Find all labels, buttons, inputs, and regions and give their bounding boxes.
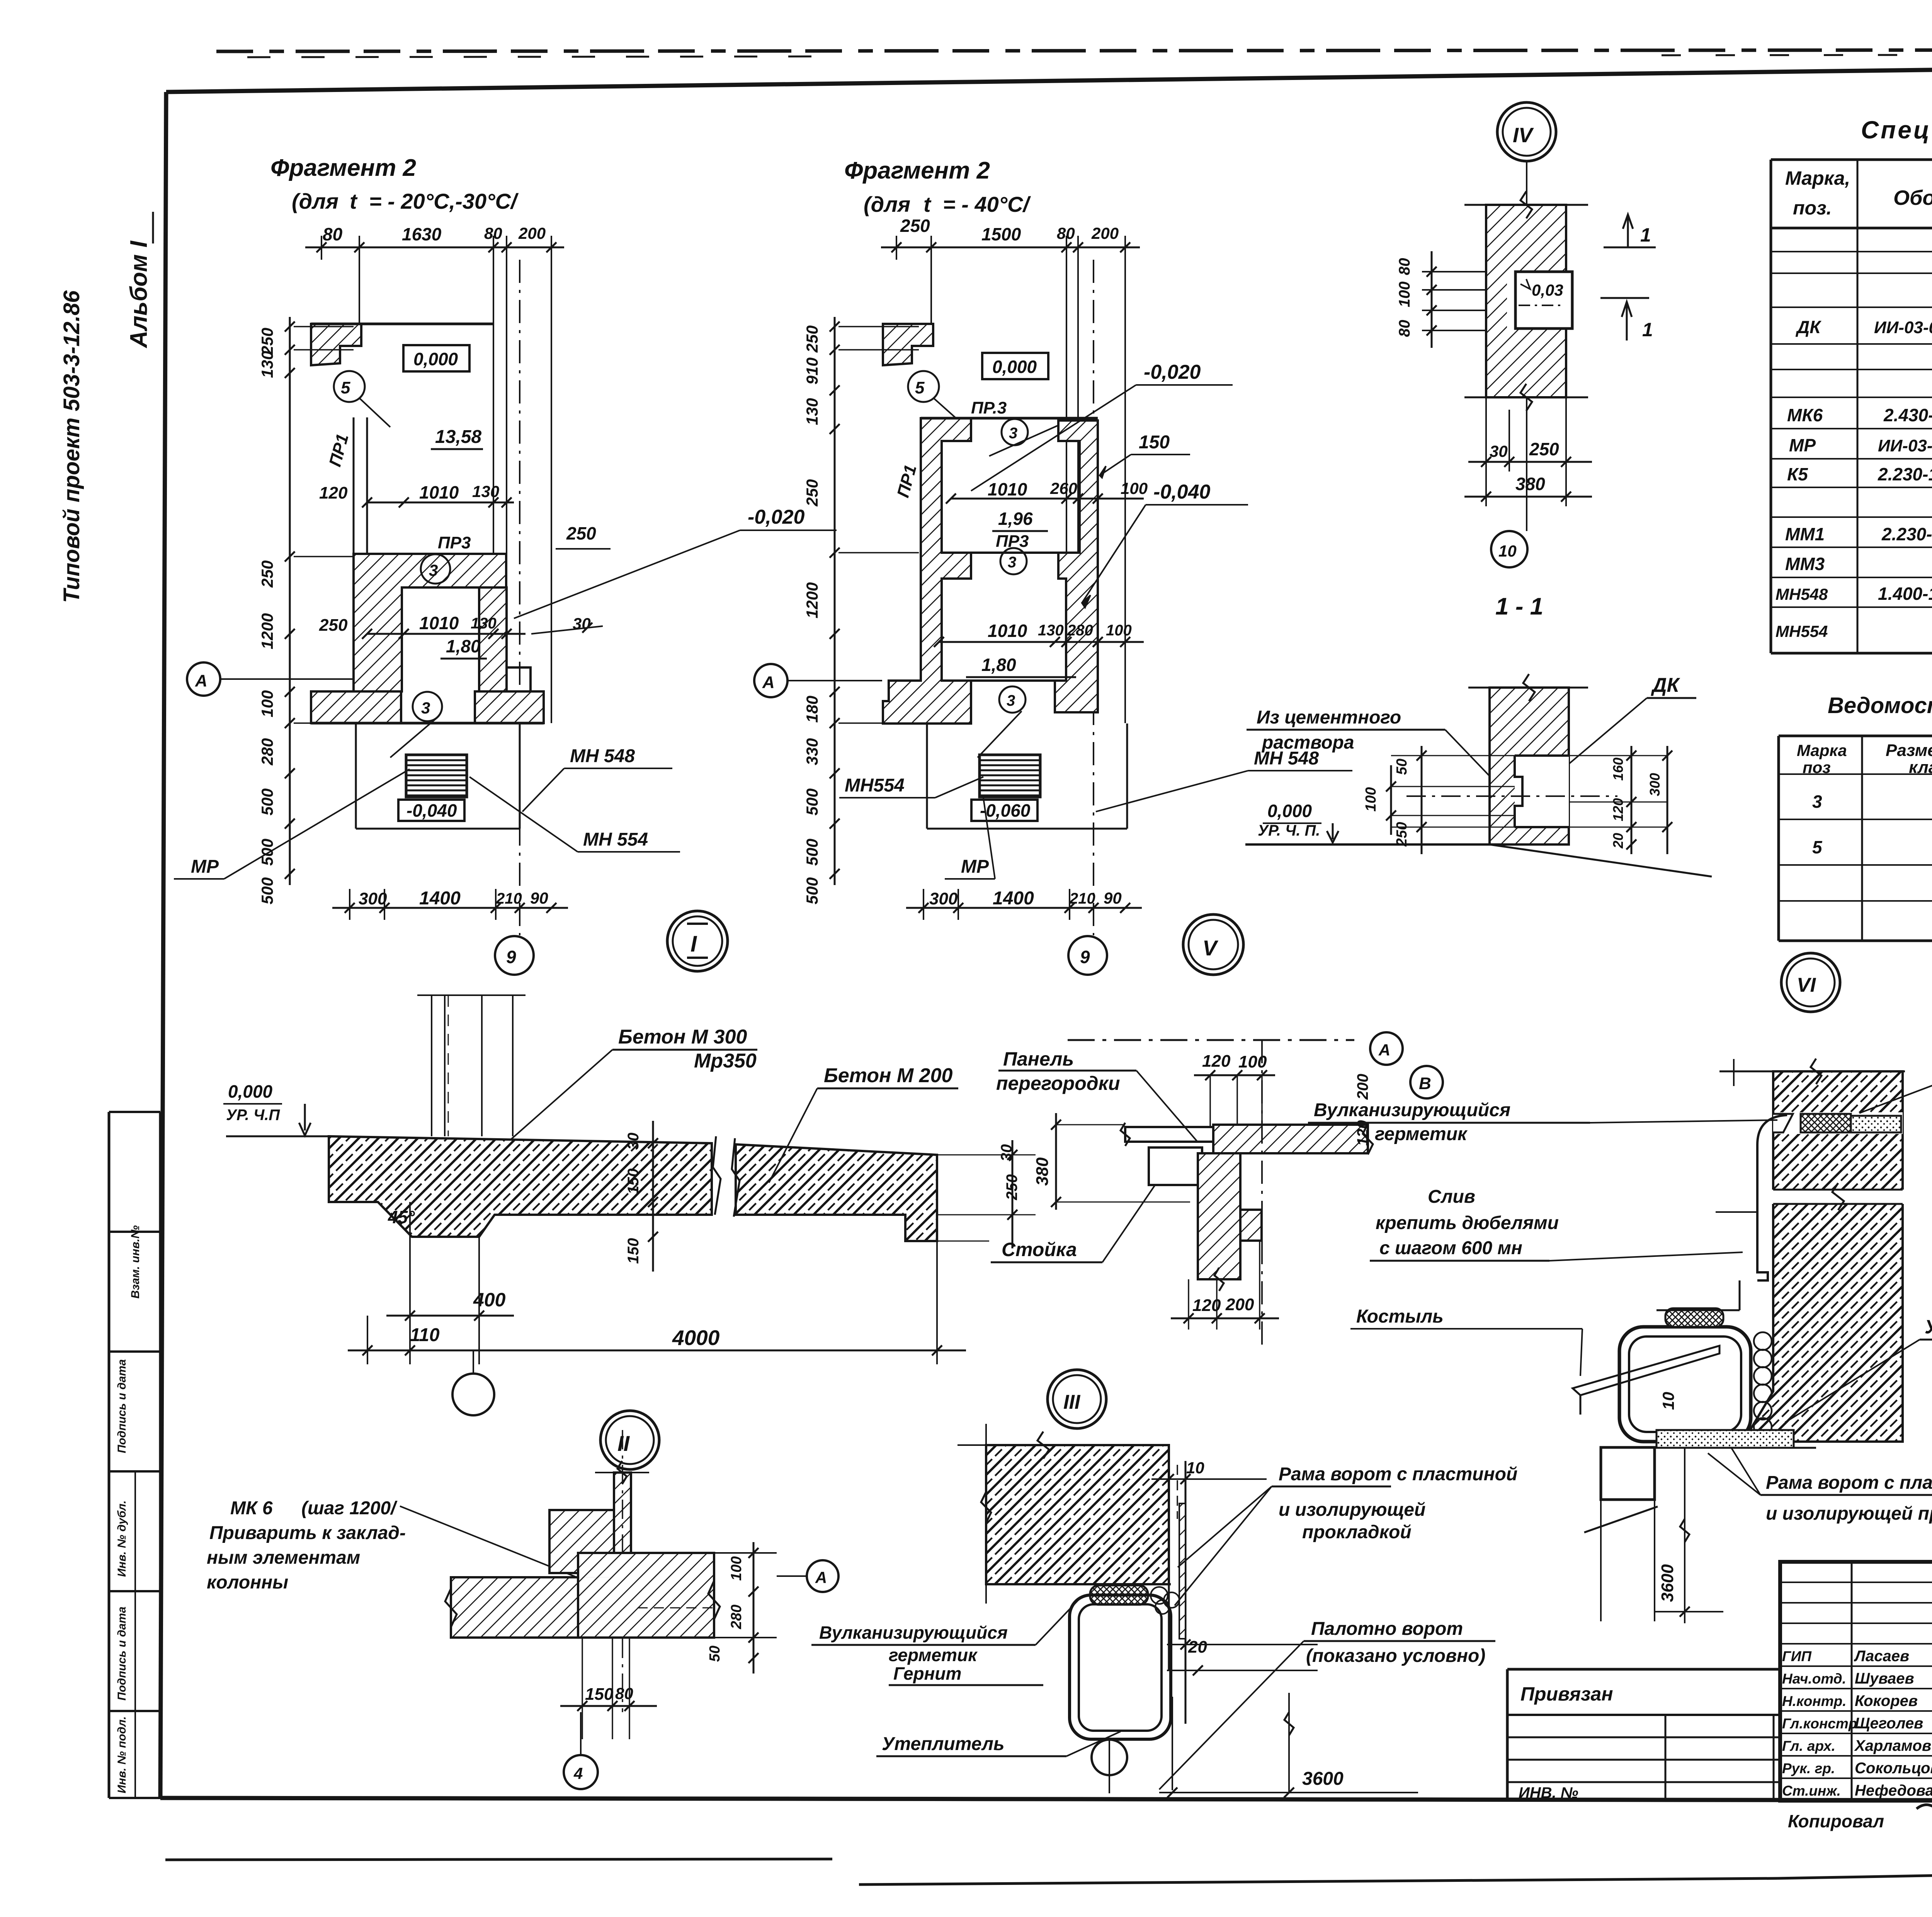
svg-text:10: 10 xyxy=(1498,542,1517,560)
svg-text:Костыль: Костыль xyxy=(1356,1306,1444,1327)
svg-text:t: t xyxy=(350,189,358,213)
svg-text:500: 500 xyxy=(803,877,821,904)
svg-text:Щеголев: Щеголев xyxy=(1855,1715,1923,1732)
svg-text:и изолирующей: и изолирующей xyxy=(1279,1500,1425,1520)
svg-text:Ведомость проемов дверей: Ведомость проемов дверей xyxy=(1828,693,1932,718)
svg-text:330: 330 xyxy=(803,738,821,765)
svg-text:200: 200 xyxy=(518,224,546,242)
svg-text:ДК: ДК xyxy=(1651,674,1680,696)
svg-text:250: 250 xyxy=(1003,1174,1020,1200)
svg-text:2.230-1 вып. 5: 2.230-1 вып. 5 xyxy=(1881,524,1932,544)
svg-text:Инв. № дубл.: Инв. № дубл. xyxy=(116,1500,128,1577)
svg-text:Сокольцов: Сокольцов xyxy=(1855,1760,1932,1777)
svg-text:-0,060: -0,060 xyxy=(980,800,1031,821)
svg-text:150: 150 xyxy=(625,1238,642,1264)
svg-text:А: А xyxy=(815,1568,827,1587)
svg-text:= - 20°С,-30°С/: = - 20°С,-30°С/ xyxy=(369,189,519,213)
svg-text:150: 150 xyxy=(1139,432,1170,453)
svg-text:I: I xyxy=(690,931,697,957)
svg-text:1500: 1500 xyxy=(981,224,1021,244)
svg-text:260: 260 xyxy=(1050,479,1077,497)
svg-text:ПР3: ПР3 xyxy=(438,533,471,552)
svg-text:5: 5 xyxy=(915,378,925,397)
svg-text:Кокорев: Кокорев xyxy=(1855,1692,1918,1709)
svg-text:250: 250 xyxy=(319,616,348,635)
svg-text:МР: МР xyxy=(961,856,989,877)
svg-text:МР: МР xyxy=(1789,435,1816,455)
svg-text:30: 30 xyxy=(573,615,591,633)
svg-text:Подпись и дата: Подпись и дата xyxy=(116,1607,128,1701)
svg-text:10: 10 xyxy=(1659,1392,1677,1410)
svg-text:250: 250 xyxy=(1394,822,1410,847)
svg-text:1010: 1010 xyxy=(988,621,1027,641)
svg-text:0,000: 0,000 xyxy=(1267,801,1312,821)
svg-text:130: 130 xyxy=(258,351,276,378)
svg-text:50: 50 xyxy=(1394,759,1410,775)
svg-text:1400: 1400 xyxy=(993,888,1034,909)
svg-text:ПР1: ПР1 xyxy=(893,463,920,499)
svg-text:100: 100 xyxy=(728,1556,745,1581)
svg-text:13,58: 13,58 xyxy=(435,427,481,447)
svg-text:120: 120 xyxy=(1354,1120,1371,1146)
svg-text:Ст.инж.: Ст.инж. xyxy=(1782,1783,1841,1799)
svg-text:500: 500 xyxy=(258,839,276,866)
svg-text:В: В xyxy=(1419,1074,1431,1093)
svg-text:100: 100 xyxy=(1121,479,1148,497)
svg-text:МР: МР xyxy=(191,856,219,877)
svg-text:3: 3 xyxy=(1008,554,1016,571)
svg-text:А: А xyxy=(195,671,207,690)
svg-text:поз.: поз. xyxy=(1793,197,1832,219)
svg-text:МК 6: МК 6 xyxy=(230,1498,273,1519)
svg-text:МН548: МН548 xyxy=(1776,585,1828,603)
svg-text:МН554: МН554 xyxy=(845,775,905,796)
svg-text:100: 100 xyxy=(258,690,276,717)
svg-text:ММ1: ММ1 xyxy=(1785,524,1825,544)
svg-text:200: 200 xyxy=(1354,1074,1371,1100)
svg-text:Харламов: Харламов xyxy=(1854,1737,1931,1754)
svg-text:-0,040: -0,040 xyxy=(1153,481,1211,503)
svg-text:500: 500 xyxy=(258,877,276,904)
svg-text:ГИП: ГИП xyxy=(1782,1648,1812,1664)
svg-text:1200: 1200 xyxy=(803,582,821,618)
svg-text:1: 1 xyxy=(1640,224,1651,246)
svg-text:130: 130 xyxy=(472,482,499,501)
svg-text:поз: поз xyxy=(1803,758,1831,776)
svg-text:90: 90 xyxy=(530,889,548,907)
svg-text:Обозначение: Обозначение xyxy=(1893,186,1932,209)
svg-text:прокладкой: прокладкой xyxy=(1302,1522,1412,1542)
svg-text:Фрагмент 2: Фрагмент 2 xyxy=(844,157,990,184)
svg-text:3: 3 xyxy=(421,699,430,717)
svg-text:ИИ-03-03 альбом 71-64: ИИ-03-03 альбом 71-64 xyxy=(1874,318,1932,337)
svg-text:Приварить к заклад-: Приварить к заклад- xyxy=(209,1523,406,1543)
svg-text:V: V xyxy=(1202,936,1219,960)
svg-text:3: 3 xyxy=(1007,692,1015,709)
svg-text:80: 80 xyxy=(1057,224,1075,242)
svg-text:1010: 1010 xyxy=(988,479,1027,499)
svg-text:Размер проема в: Размер проема в xyxy=(1886,741,1932,760)
svg-text:Гл. арх.: Гл. арх. xyxy=(1782,1738,1835,1754)
svg-text:250: 250 xyxy=(258,560,276,588)
svg-text:4: 4 xyxy=(573,1764,583,1783)
svg-text:= - 40°С/: = - 40°С/ xyxy=(943,192,1031,216)
svg-text:Слив: Слив xyxy=(1428,1187,1475,1207)
svg-text:II: II xyxy=(617,1431,630,1456)
svg-text:Рук. гр.: Рук. гр. xyxy=(1782,1760,1835,1776)
svg-text:180: 180 xyxy=(803,696,821,723)
svg-text:1630: 1630 xyxy=(402,224,442,244)
svg-text:500: 500 xyxy=(258,788,276,815)
svg-text:0,000: 0,000 xyxy=(413,349,458,369)
svg-text:250: 250 xyxy=(1529,439,1559,459)
svg-text:К5: К5 xyxy=(1787,464,1808,484)
svg-text:кладке, ММ: кладке, ММ xyxy=(1909,758,1932,777)
svg-text:1,80: 1,80 xyxy=(446,636,481,656)
svg-text:(шаг 1200/: (шаг 1200/ xyxy=(301,1498,398,1519)
svg-text:Подпись и дата: Подпись и дата xyxy=(116,1359,128,1453)
svg-text:80: 80 xyxy=(1396,320,1413,337)
svg-text:250: 250 xyxy=(900,216,930,236)
svg-text:1400: 1400 xyxy=(419,888,461,909)
svg-text:(для: (для xyxy=(864,192,910,216)
svg-text:Спецификация элементов к: Спецификация элементов к узлам I-V xyxy=(1861,116,1932,144)
svg-text:Стойка: Стойка xyxy=(1002,1239,1077,1260)
svg-text:ПР.3: ПР.3 xyxy=(971,398,1007,417)
svg-text:Гл.констр.: Гл.констр. xyxy=(1782,1716,1861,1731)
svg-text:10: 10 xyxy=(1186,1459,1204,1477)
svg-text:280: 280 xyxy=(258,738,276,766)
svg-text:250: 250 xyxy=(803,479,821,507)
svg-text:IV: IV xyxy=(1513,124,1534,147)
svg-text:МН 554: МН 554 xyxy=(583,829,648,850)
svg-text:Привязан: Привязан xyxy=(1520,1683,1613,1705)
svg-text:1: 1 xyxy=(1642,319,1653,340)
svg-text:Типовой проект 503-3-12.86: Типовой проект 503-3-12.86 xyxy=(59,290,84,603)
svg-text:2.430-3 вып.3: 2.430-3 вып.3 xyxy=(1883,405,1932,425)
svg-text:45°: 45° xyxy=(388,1207,415,1227)
svg-text:0,03: 0,03 xyxy=(1532,281,1563,299)
svg-text:80: 80 xyxy=(1396,258,1413,276)
svg-text:ММ3: ММ3 xyxy=(1785,554,1825,574)
svg-text:МК6: МК6 xyxy=(1787,405,1823,425)
svg-text:Мр350: Мр350 xyxy=(694,1050,757,1072)
svg-text:крепить дюбелями: крепить дюбелями xyxy=(1376,1213,1559,1233)
svg-text:200: 200 xyxy=(1225,1295,1254,1314)
svg-text:А: А xyxy=(1378,1041,1390,1059)
svg-text:ДК: ДК xyxy=(1795,317,1821,337)
svg-text:III: III xyxy=(1063,1391,1081,1413)
svg-text:500: 500 xyxy=(803,788,821,815)
svg-text:А: А xyxy=(762,673,775,692)
svg-text:100: 100 xyxy=(1396,281,1413,307)
svg-text:Нач.отд.: Нач.отд. xyxy=(1782,1671,1846,1687)
svg-text:ным элементам: ным элементам xyxy=(207,1548,360,1568)
svg-text:Фрагмент 2: Фрагмент 2 xyxy=(270,155,416,181)
svg-text:герметик: герметик xyxy=(1375,1124,1468,1144)
svg-text:400: 400 xyxy=(473,1289,506,1311)
svg-text:-0,020: -0,020 xyxy=(748,506,805,528)
svg-text:перегородки: перегородки xyxy=(996,1073,1120,1094)
svg-text:200: 200 xyxy=(1091,224,1119,242)
svg-text:2.230-1 вып. 5: 2.230-1 вып. 5 xyxy=(1878,464,1932,484)
svg-text:160: 160 xyxy=(1610,758,1626,781)
svg-text:Ласаев: Ласаев xyxy=(1854,1648,1909,1665)
svg-text:280: 280 xyxy=(728,1605,745,1629)
svg-text:Копировал: Копировал xyxy=(1788,1811,1884,1831)
svg-text:3: 3 xyxy=(1009,425,1017,442)
svg-text:Палотно ворот: Палотно ворот xyxy=(1311,1619,1463,1639)
svg-text:Из цементного: Из цементного xyxy=(1257,707,1401,728)
svg-text:380: 380 xyxy=(1033,1157,1052,1186)
svg-text:300: 300 xyxy=(1647,773,1663,796)
svg-text:130: 130 xyxy=(471,615,497,632)
svg-text:30: 30 xyxy=(998,1144,1015,1162)
svg-text:9: 9 xyxy=(506,947,516,967)
svg-text:120: 120 xyxy=(319,484,348,502)
svg-text:и изолирующей прокладкой: и изолирующей прокладкой xyxy=(1766,1503,1932,1524)
svg-text:1.400-15 вып.1: 1.400-15 вып.1 xyxy=(1878,584,1932,604)
svg-text:УР. Ч.П: УР. Ч.П xyxy=(226,1107,280,1124)
svg-text:130: 130 xyxy=(1038,622,1064,639)
svg-text:5: 5 xyxy=(341,378,350,397)
svg-text:4000: 4000 xyxy=(672,1326,720,1350)
svg-text:-0,040: -0,040 xyxy=(406,800,457,821)
svg-text:9: 9 xyxy=(1080,947,1090,967)
svg-text:1 - 1: 1 - 1 xyxy=(1495,593,1543,620)
svg-text:110: 110 xyxy=(410,1325,440,1345)
svg-text:3600: 3600 xyxy=(1302,1769,1344,1789)
svg-text:250: 250 xyxy=(803,325,821,353)
svg-text:МН554: МН554 xyxy=(1776,622,1828,640)
svg-text:t: t xyxy=(923,192,932,216)
svg-text:30: 30 xyxy=(1490,442,1508,460)
svg-text:3: 3 xyxy=(1812,792,1822,812)
svg-text:МН 548: МН 548 xyxy=(570,746,635,766)
svg-text:Панель: Панель xyxy=(1003,1048,1074,1070)
svg-text:Альбом I: Альбом I xyxy=(126,240,152,349)
svg-text:Вулканизирующийся: Вулканизирующийся xyxy=(1314,1100,1510,1120)
svg-text:90: 90 xyxy=(1104,889,1122,907)
svg-text:500: 500 xyxy=(803,839,821,866)
svg-text:Гернит: Гернит xyxy=(893,1663,961,1684)
svg-text:УР. Ч. П.: УР. Ч. П. xyxy=(1258,822,1320,839)
svg-text:80: 80 xyxy=(484,224,502,242)
svg-text:150: 150 xyxy=(585,1685,614,1704)
svg-text:1010: 1010 xyxy=(419,613,459,633)
svg-text:Шуваев: Шуваев xyxy=(1855,1670,1914,1687)
svg-text:300: 300 xyxy=(929,889,958,908)
svg-text:(показано условно): (показано условно) xyxy=(1306,1646,1485,1666)
svg-text:130: 130 xyxy=(803,398,821,425)
svg-text:30: 30 xyxy=(625,1133,642,1150)
svg-text:Н.контр.: Н.контр. xyxy=(1782,1693,1846,1709)
svg-text:5: 5 xyxy=(1812,837,1823,857)
svg-text:ИНВ. №: ИНВ. № xyxy=(1519,1784,1578,1801)
svg-text:Утеплитель: Утеплитель xyxy=(882,1734,1004,1754)
svg-text:-0,020: -0,020 xyxy=(1144,361,1201,383)
svg-text:1200: 1200 xyxy=(258,613,276,649)
svg-text:3600: 3600 xyxy=(1658,1564,1677,1602)
svg-text:0,000: 0,000 xyxy=(228,1081,273,1102)
svg-text:150: 150 xyxy=(625,1168,642,1194)
svg-text:Бетон М 300: Бетон М 300 xyxy=(618,1026,747,1048)
svg-text:Инв. № подл.: Инв. № подл. xyxy=(116,1716,128,1793)
svg-text:Утеплитель: Утеплитель xyxy=(1925,1316,1932,1338)
svg-text:колонны: колонны xyxy=(207,1572,288,1593)
svg-text:100: 100 xyxy=(1363,787,1379,812)
svg-text:Марка: Марка xyxy=(1797,741,1847,759)
svg-text:Нефедова: Нефедова xyxy=(1855,1782,1932,1799)
svg-text:Вулканизирующийся: Вулканизирующийся xyxy=(819,1622,1008,1643)
svg-text:80: 80 xyxy=(323,224,343,244)
svg-text:3: 3 xyxy=(429,561,438,579)
svg-text:1010: 1010 xyxy=(419,482,459,502)
svg-text:80: 80 xyxy=(615,1684,633,1702)
svg-text:50: 50 xyxy=(707,1646,723,1662)
svg-text:раствора: раствора xyxy=(1261,732,1354,753)
svg-text:Рама ворот с пластиной: Рама ворот с пластиной xyxy=(1279,1464,1517,1485)
svg-text:100: 100 xyxy=(1106,622,1132,639)
svg-text:Бетон М 200: Бетон М 200 xyxy=(824,1064,953,1087)
svg-text:Марка,: Марка, xyxy=(1785,167,1850,189)
svg-text:120: 120 xyxy=(1202,1052,1231,1071)
svg-text:герметик: герметик xyxy=(889,1645,978,1665)
svg-text:0,000: 0,000 xyxy=(992,357,1037,377)
svg-text:380: 380 xyxy=(1515,474,1545,494)
svg-text:VI: VI xyxy=(1797,974,1816,996)
svg-text:с шагом 600 мн: с шагом 600 мн xyxy=(1379,1238,1522,1258)
svg-text:300: 300 xyxy=(359,889,387,908)
svg-text:ИИ-03-03 ал. 71-64: ИИ-03-03 ал. 71-64 xyxy=(1878,436,1932,455)
svg-text:910: 910 xyxy=(803,358,821,385)
svg-text:ПР1: ПР1 xyxy=(325,432,352,468)
svg-text:1,96: 1,96 xyxy=(998,509,1033,529)
svg-text:250: 250 xyxy=(566,523,596,543)
svg-text:Рама ворот с пластиной: Рама ворот с пластиной xyxy=(1766,1473,1932,1493)
svg-text:Взам. инв.№: Взам. инв.№ xyxy=(129,1225,142,1299)
svg-text:(для: (для xyxy=(292,189,338,213)
svg-text:20: 20 xyxy=(1610,833,1626,849)
svg-text:1,80: 1,80 xyxy=(981,655,1016,675)
